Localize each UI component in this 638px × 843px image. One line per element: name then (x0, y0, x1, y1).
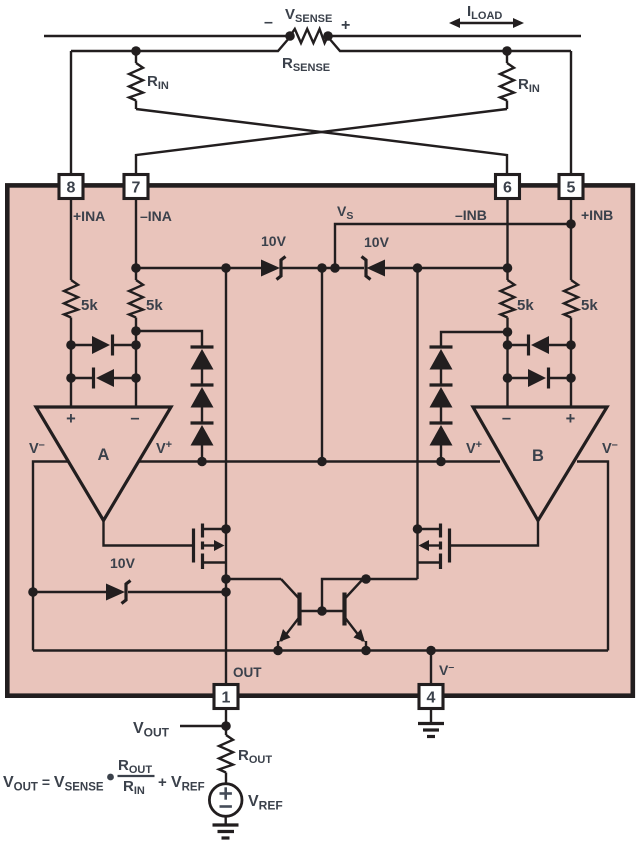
svg-text:–: – (264, 14, 273, 31)
wire pin1 output stub (225, 709, 227, 736)
wire ILOAD arrow (453, 22, 520, 24)
node chain A bottom (197, 457, 207, 467)
wire cross RINA to pin6 (136, 109, 507, 176)
node clamp rail x322 (317, 263, 327, 273)
svg-text:A: A (98, 446, 110, 464)
svg-text:VREF: VREF (248, 793, 283, 813)
node RSENSE left terminal (285, 31, 295, 41)
node chain B bottom (436, 457, 446, 467)
diode chain A D1 (191, 347, 214, 385)
wire chain B branch (441, 332, 508, 347)
node chain A branch (131, 326, 141, 336)
wire clamp rail segment 1 (136, 267, 261, 269)
wire opamp B output to gate (450, 521, 539, 546)
node RIN A tap (131, 46, 141, 56)
wire pin5 drop (570, 51, 572, 176)
transistor Q1 (left BJT) (226, 579, 300, 651)
svg-text:1: 1 (222, 690, 231, 707)
node M2 drain (413, 524, 423, 534)
wire V- bottom rail (33, 649, 608, 651)
resistor ROUT (219, 735, 233, 773)
wire pin8 drop (70, 51, 72, 176)
wire chain A branch (136, 331, 202, 347)
node zener line at out column (221, 587, 231, 597)
svg-text:+: + (341, 17, 350, 34)
node clamp rail x417 (413, 263, 423, 273)
node base link center (317, 606, 327, 616)
wire base to Q2 collector (322, 579, 366, 611)
wire top battery rail right (328, 35, 581, 37)
svg-text:OUT: OUT (233, 665, 262, 680)
node Q2 emitter (361, 646, 371, 656)
resistor 5k B- (501, 280, 515, 318)
svg-text:VSENSE: VSENSE (285, 6, 332, 25)
node RIN B tap (502, 46, 512, 56)
wire MOSFET A drain column (225, 268, 227, 685)
IC package body (7, 185, 633, 695)
wire kelvin sense left (71, 37, 290, 51)
svg-text:B: B (532, 447, 544, 465)
source VREF (209, 784, 242, 817)
transistor M2 (right MOSFET) (418, 524, 450, 570)
pin 8 box (59, 175, 83, 199)
wire pin7 internal column (135, 198, 137, 280)
svg-text:–: – (130, 409, 139, 427)
node center column bottom (317, 457, 327, 467)
node RSENSE right terminal (323, 31, 333, 41)
wire opamp A V- loop (33, 462, 69, 651)
node VOUT tap (221, 721, 231, 731)
diode pair B upper (points left) (503, 335, 576, 356)
wire Q1 Q2 base link (300, 610, 345, 612)
formula VOUT equation (3, 757, 205, 797)
svg-text:+: + (66, 410, 76, 428)
svg-text:5k: 5k (146, 297, 163, 314)
svg-text:ILOAD: ILOAD (467, 3, 502, 22)
resistor RSENSE (290, 29, 328, 43)
diode chain B D1 (430, 347, 453, 385)
node Q2 collector junction (361, 574, 371, 584)
zener D3 10V lower left (33, 581, 226, 604)
pin 6 box (496, 175, 520, 199)
resistor RIN B (506, 51, 508, 63)
wire opamp B V- loop (577, 462, 608, 651)
node VS at +INB (566, 219, 576, 229)
wire clamp rail segment 2 (282, 267, 364, 269)
zener D1 10V (261, 260, 280, 277)
diode pair A lower (points left) (66, 368, 141, 389)
diode chain B D3 (430, 423, 453, 462)
wire pin5 internal column (570, 198, 572, 280)
pin 4 box (419, 685, 443, 709)
resistor RIN A (135, 51, 137, 63)
diode chain B D2 (430, 385, 453, 423)
svg-text:VOUT = VSENSE: VOUT = VSENSE (3, 774, 104, 794)
wire V+ common rail (138, 460, 500, 462)
svg-text:+ VREF: + VREF (158, 774, 205, 794)
wire top battery rail left (44, 35, 290, 37)
svg-text:ROUT: ROUT (118, 757, 152, 776)
wire opamp A output to gate (104, 521, 194, 546)
wire cross RINB to pin7 (136, 109, 507, 176)
node clamp rail at -INA (131, 263, 141, 273)
ground under VREF (213, 816, 239, 838)
svg-text:5: 5 (567, 180, 576, 197)
svg-text:–INA: –INA (140, 208, 172, 224)
diode pair A upper (points right) (66, 335, 141, 356)
op-amp U1 A (36, 407, 171, 521)
wire clamp rail segment 3 (385, 267, 508, 269)
node pin4 tap (426, 646, 436, 656)
node clamp rail at -INB (503, 263, 513, 273)
node M1 source junction (221, 574, 231, 584)
wire MOSFET B drain column (416, 268, 418, 579)
node M1 drain (221, 524, 231, 534)
svg-text:5k: 5k (81, 297, 98, 314)
svg-text:5k: 5k (517, 297, 534, 314)
svg-text:10V: 10V (261, 233, 287, 249)
svg-text:–INB: –INB (455, 207, 487, 223)
svg-text:7: 7 (132, 180, 141, 197)
svg-text:–: – (502, 409, 511, 427)
diode chain A D2 (191, 385, 214, 423)
wire pin6 internal column (506, 198, 508, 280)
svg-text:10V: 10V (364, 234, 390, 250)
svg-text:10V: 10V (110, 555, 136, 571)
resistor 5k A+ (64, 280, 78, 318)
pin 7 box (124, 175, 148, 199)
svg-text:RIN: RIN (147, 73, 169, 92)
svg-text:4: 4 (427, 690, 436, 707)
svg-text:RIN: RIN (123, 778, 145, 797)
node VS tap (330, 263, 340, 273)
pin 5 box (559, 175, 583, 199)
svg-text:5k: 5k (581, 297, 598, 314)
pin 1 box (214, 685, 238, 709)
svg-text:+: + (566, 410, 576, 428)
node zener line at left column (28, 587, 38, 597)
wire kelvin sense right (328, 37, 571, 51)
wire center column (321, 268, 323, 462)
svg-text:ROUT: ROUT (238, 747, 272, 766)
wire VS to +INB (335, 224, 571, 268)
transistor Q2 (right BJT) (345, 579, 418, 651)
diode pair B lower (points right) (503, 368, 576, 389)
resistor 5k A- (129, 280, 143, 318)
svg-text:8: 8 (67, 180, 76, 197)
svg-text:+INA: +INA (73, 208, 105, 224)
zener D2 10V (362, 257, 371, 280)
transistor M1 (left MOSFET) (194, 524, 227, 570)
svg-text:+INB: +INB (581, 207, 613, 223)
ground under pin 4 (418, 709, 444, 737)
svg-text:VOUT: VOUT (133, 720, 170, 740)
svg-text:RIN: RIN (518, 76, 540, 95)
svg-text:RSENSE: RSENSE (282, 55, 330, 74)
svg-text:6: 6 (503, 180, 512, 197)
wire VOUT tap (180, 725, 226, 727)
node chain B branch (503, 327, 513, 337)
op-amp U2 B (473, 407, 607, 521)
resistor 5k B+ (564, 280, 578, 318)
node clamp rail x226 (221, 263, 231, 273)
wire pin8 internal column (70, 198, 72, 280)
wire pin4 stub (430, 651, 432, 686)
node Q1 emitter (273, 646, 283, 656)
diode chain A D3 (191, 423, 214, 462)
